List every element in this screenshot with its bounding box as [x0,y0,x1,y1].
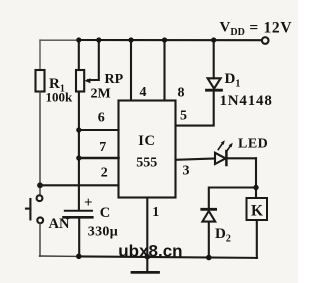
wire left rail bottom [39,223,41,256]
wire top rail [40,39,79,41]
svg-text:5: 5 [180,109,187,124]
pushbutton AN [37,195,43,201]
wire RP wiper [88,40,99,80]
svg-text:K: K [251,202,263,219]
svg-text:IC: IC [138,133,155,149]
wire pin7 stub [79,157,119,160]
diode D2 [202,208,216,211]
power terminal VDD [262,37,269,44]
svg-text:6: 6 [98,110,105,125]
svg-text:4: 4 [140,85,147,100]
wire pin1 lead [146,198,148,257]
svg-text:D2: D2 [215,226,231,245]
svg-text:8: 8 [178,85,185,100]
LED LED [215,153,226,164]
svg-text:LED: LED [238,137,268,152]
svg-text:2M: 2M [91,87,111,102]
svg-text:RP: RP [105,72,124,87]
node junction pin6 [76,127,81,132]
svg-text:D1: D1 [225,71,241,90]
diode D1 [208,78,221,88]
svg-text:7: 7 [99,140,106,155]
wire RP bottom to capacitor [78,92,80,210]
svg-text:555: 555 [136,155,157,170]
ground [146,257,148,272]
node junction pin8 [162,37,167,42]
svg-text:C: C [100,205,110,221]
svg-text:1: 1 [152,205,159,220]
wire left rail lower [39,92,41,196]
svg-text:AN: AN [49,216,70,232]
svg-text:3: 3 [183,163,190,178]
svg-text:330μ: 330μ [88,225,118,240]
wire pin4 lead [130,40,132,101]
wire left rail upper [39,40,41,71]
wire pin6 stub [79,129,119,131]
svg-text:VDD = 12V: VDD = 12V [220,19,293,38]
node junction D1 top [211,37,216,42]
relay K [247,198,268,220]
svg-text:1N4148: 1N4148 [220,93,273,109]
wire capacitor bottom [78,217,80,256]
wire pin2 stub [40,184,119,186]
capacitor C [65,210,92,212]
wire D1 top lead [213,40,215,78]
resistor R1 [36,70,45,92]
node junction D2 bottom [206,255,212,261]
op IC 555 body [119,101,176,198]
wire bottom rail [40,255,80,257]
wire pin8 lead [163,40,165,101]
svg-text:2: 2 [101,166,108,181]
node junction pin4 [128,37,133,42]
wire D2 bottom lead [208,222,210,258]
wire RP top lead [78,40,80,71]
node junction wiper top [96,37,101,42]
node junction left-rail/pin2 [37,182,43,188]
wire LED to K branch [226,157,256,159]
node junction pin7 [76,155,81,160]
wire K bottom lead [256,220,258,258]
wire branch to D2 [209,188,256,209]
potentiometer RP [76,70,84,92]
node junction K top [253,185,258,190]
wire D1 to pin5 [176,90,214,125]
svg-text:+: + [84,195,93,211]
svg-text:100k: 100k [46,90,74,105]
node junction cap/bottom rail [76,253,82,259]
node junction pin1/rail [145,254,151,260]
node junction RP top [76,37,81,42]
svg-text:ubx8.cn: ubx8.cn [118,241,182,260]
wire pin3 stub [176,159,216,160]
